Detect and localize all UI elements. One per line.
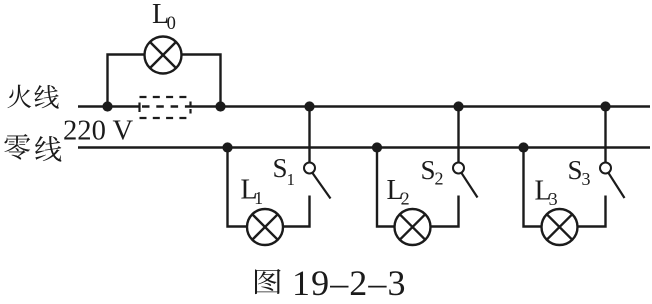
node on neutral wire (branch 2) [372, 142, 382, 152]
svg-text:L3: L3 [535, 176, 558, 210]
label 线 of 火线 [34, 85, 58, 109]
wire: S1 lower contact to lamp L1 [283, 196, 310, 227]
node on live wire (branch 3) [600, 101, 610, 111]
svg-text:S2: S2 [421, 155, 444, 189]
svg-text:L1: L1 [241, 175, 264, 209]
branch 1: wire from live bus down to switch [308, 107, 310, 163]
svg-text:S3: S3 [568, 155, 591, 189]
caption 图 glyph [255, 269, 281, 294]
node on neutral wire (branch 1) [222, 142, 232, 152]
branch 2: wire from live bus down to switch [457, 107, 459, 163]
wire: L0 loop right vertical [182, 55, 221, 107]
lamp L0 [145, 37, 182, 74]
node on live wire (L0 right) [215, 101, 225, 111]
switch S2 [453, 163, 478, 198]
svg-text:S1: S1 [273, 153, 296, 189]
label 零线 (neutral wire) [4, 134, 30, 160]
live wire 火线 (left segment) [78, 105, 141, 107]
wire: neutral bus down to lamp L2 [377, 148, 395, 227]
wire: neutral bus down to lamp L3 [524, 148, 542, 227]
svg-text:19–2–3: 19–2–3 [292, 263, 407, 303]
switch S3 [600, 163, 625, 199]
node on live wire (L0 left) [102, 101, 112, 111]
label 线 of 零线 [35, 136, 61, 162]
switch S1 [304, 163, 331, 199]
live wire 火线 (main segment) [190, 105, 650, 107]
lamp L1 [247, 209, 283, 245]
wire: S2 lower contact to lamp L2 [431, 196, 459, 227]
svg-text:L2: L2 [387, 175, 410, 209]
neutral wire 零线 [78, 146, 650, 148]
wire: L0 loop left vertical [108, 55, 145, 107]
wire: neutral bus down to lamp L1 [228, 148, 248, 227]
branch 3: wire from live bus down to switch [604, 107, 606, 163]
label 火线 (live wire) [8, 85, 32, 109]
node on live wire (branch 2) [453, 101, 463, 111]
lamp L2 [395, 209, 431, 245]
fuse (dashed box on live wire) [140, 97, 192, 118]
svg-text:220 V: 220 V [63, 116, 134, 147]
node on neutral wire (branch 3) [518, 142, 528, 152]
node on live wire (branch 1) [304, 101, 314, 111]
wire: S3 lower contact to lamp L3 [578, 196, 606, 227]
svg-text:L0: L0 [152, 0, 176, 34]
lamp L3 [542, 209, 578, 245]
